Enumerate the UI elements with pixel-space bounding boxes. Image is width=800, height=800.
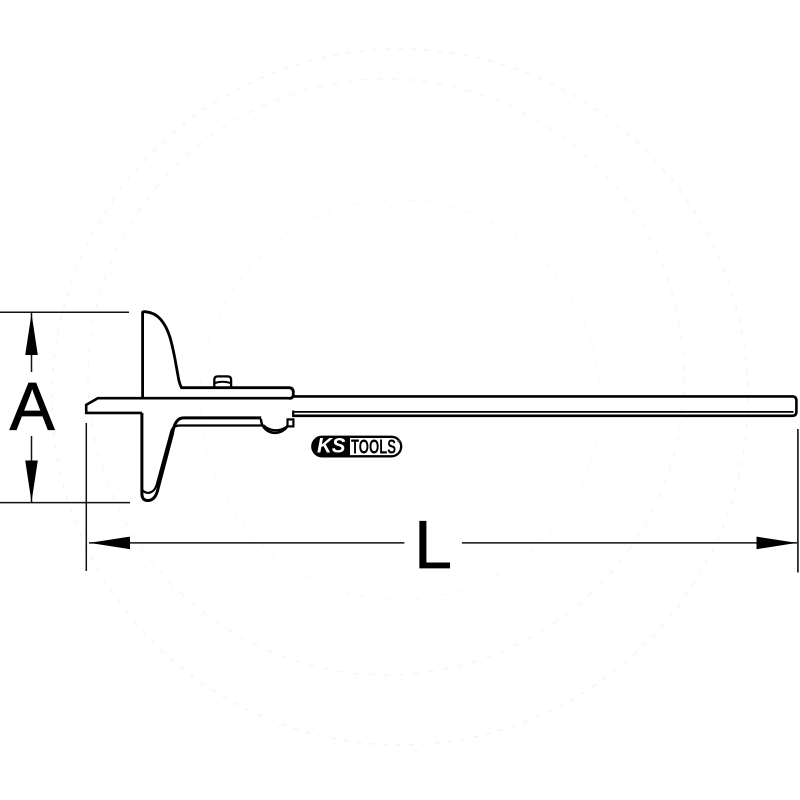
dimension L right arrowhead [757,537,797,550]
dimension A line lower segment [31,436,33,502]
slider upper body with base fin [143,312,294,399]
dimension L left arrowhead [90,537,131,550]
slider lower foot outer contour [142,413,261,501]
dimension A top arrowhead [25,314,38,356]
slider right edge below rod [292,411,294,418]
KS TOOLS logo pill [312,435,401,459]
svg-text:L: L [414,507,452,583]
dimension L line right segment [462,542,797,544]
slider lower foot inner contour (double line) [143,426,263,493]
thumb screw on top of slider [214,376,231,387]
dimension A bottom arrowhead [25,461,38,503]
small tab right of knob [288,419,294,426]
rod left tip blade (protruding left end of beam) [86,398,289,413]
extension line right (dimension L) [797,429,799,573]
svg-text:A: A [10,370,55,445]
extension line top (dimension A) [0,311,129,313]
watermark inner circle [200,200,600,600]
thumb screw seam line [214,382,231,383]
caliper rod (long measuring beam to the right) [293,396,797,415]
rod chamfer inner line [293,411,794,413]
extension line left (dimension L) [85,423,87,571]
extension line bottom (dimension A) [0,502,130,504]
svg-text:KS: KS [317,435,346,458]
lock knob inner arc [264,425,287,430]
svg-text:TOOLS: TOOLS [351,436,396,458]
lock knob outer arc [261,419,289,433]
dimension A line upper segment [31,313,33,372]
watermark middle circle [88,79,684,675]
dimension L line left segment [89,542,404,544]
watermark outer circle [52,49,748,745]
